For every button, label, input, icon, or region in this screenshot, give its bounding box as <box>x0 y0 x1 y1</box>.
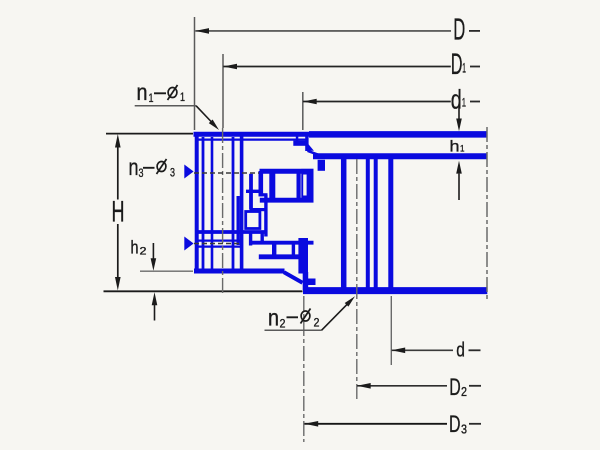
inner ring top chamfer diagonal <box>308 151 320 155</box>
H dimension line upper segment with up arrow <box>115 134 121 148</box>
svg-text:D: D <box>449 374 461 401</box>
lower roller right edge <box>292 244 295 256</box>
dimension line D1 <box>223 66 450 68</box>
svg-text:2: 2 <box>140 246 147 258</box>
inner ring bore wall <box>388 158 393 289</box>
upper corner bar <box>259 193 268 196</box>
inner ring nose left face <box>264 195 267 237</box>
lower grease fitting arrow <box>184 237 193 251</box>
H top extension line <box>106 133 193 135</box>
h1 upper arrow <box>458 106 460 119</box>
extension line for d1 (inner ring lip) <box>302 92 304 130</box>
section right edge centerline <box>486 127 488 299</box>
n1 underline <box>135 105 196 107</box>
phi1 symbol <box>168 88 177 98</box>
lower staircase column <box>261 232 264 243</box>
trailing dash after D2 <box>469 385 481 387</box>
arrowhead D <box>195 28 209 34</box>
svg-text:3: 3 <box>461 422 467 437</box>
outer ring top inner line <box>197 139 308 141</box>
outer ring left chamfer line <box>202 137 205 270</box>
svg-text:h: h <box>450 139 460 156</box>
svg-text:n: n <box>129 154 139 180</box>
outer+inner ring top surface line <box>194 132 310 137</box>
upper pocket staircase bar <box>246 190 261 193</box>
lower grease hole lower wall <box>196 246 243 248</box>
lower grease hole centerline <box>194 243 242 245</box>
svg-text:3: 3 <box>170 166 175 180</box>
arrowhead D1 <box>223 64 237 70</box>
inner ring top step vertical <box>305 135 308 151</box>
n1 leader line <box>196 106 212 123</box>
n2 underline <box>265 329 322 331</box>
dimension line D2 <box>357 385 447 387</box>
radial pocket top line <box>250 208 266 211</box>
trailing dash after d1 <box>470 101 480 103</box>
svg-text:d: d <box>456 338 465 361</box>
outer ring split line / radial pocket bottom <box>197 230 266 234</box>
svg-text:D: D <box>451 48 463 81</box>
extension line for D1 (bolt circle outer ring) <box>222 54 224 128</box>
svg-text:1: 1 <box>462 60 466 76</box>
outer ring bottom edge <box>194 269 285 274</box>
outer ring bottom chamfer <box>284 272 303 283</box>
arrowhead D2 <box>357 383 371 389</box>
upper grease fitting arrow <box>184 165 193 179</box>
dimension line D3 <box>305 423 448 425</box>
outer ring bolt hole left wall <box>211 137 214 269</box>
svg-text:2: 2 <box>280 317 286 331</box>
svg-text:n: n <box>137 79 148 105</box>
inner ring nose bottom line <box>249 241 314 245</box>
svg-text:h: h <box>131 237 139 257</box>
dimension line d <box>392 349 454 351</box>
svg-text:d: d <box>451 84 462 114</box>
upper pocket right wall slit <box>303 175 306 196</box>
upper roller right edge <box>297 174 301 199</box>
inner ring bolt hole left wall <box>341 158 347 289</box>
lower grease hole upper wall <box>196 240 243 242</box>
svg-text:D: D <box>453 12 465 47</box>
extension line for D (outer ring OD) <box>194 17 196 130</box>
n1 leader arrowhead <box>209 120 219 131</box>
arrowhead d <box>392 348 406 354</box>
inner ring top surface line <box>313 153 487 159</box>
svg-text:n: n <box>268 305 279 331</box>
lower roller left edge <box>272 244 276 256</box>
radial roller outline <box>246 212 260 229</box>
inner ring bolt hole right wall <box>366 158 370 289</box>
lower pocket staircase vertical <box>249 232 252 246</box>
inner ring bore step line <box>374 158 378 289</box>
n2 leader arrowhead <box>345 296 355 306</box>
svg-text:D: D <box>449 411 461 438</box>
trailing dash after D1 <box>470 66 480 68</box>
outer ring bore wall <box>240 136 244 270</box>
inner ring labyrinth blob <box>307 143 314 151</box>
inner ring nose top line <box>260 198 314 203</box>
upper roller pocket top line <box>260 169 314 174</box>
trailing dash after d <box>469 349 481 351</box>
phi3 symbol <box>157 162 166 172</box>
svg-text:3: 3 <box>139 166 144 180</box>
svg-text:2: 2 <box>461 384 467 399</box>
n2 leader line <box>322 303 349 330</box>
dimension line D <box>195 30 451 32</box>
upper roller left edge <box>269 174 275 199</box>
upper cage wall <box>258 171 263 196</box>
D3 extension line <box>303 296 305 442</box>
outer ring left edge <box>195 132 199 273</box>
upper grease hole centerline <box>194 172 259 174</box>
svg-text:1: 1 <box>180 90 185 104</box>
trailing dash after D <box>469 30 480 32</box>
inner ring seal strip <box>318 160 325 171</box>
d extension line <box>390 296 392 365</box>
outer ring bore wall thickening at roller zone <box>236 196 239 245</box>
svg-text:1: 1 <box>149 91 154 105</box>
dimension line d1 <box>303 101 451 103</box>
svg-text:1: 1 <box>462 96 467 110</box>
lower pocket bottom line <box>259 254 300 259</box>
phi2 symbol <box>301 311 310 321</box>
outer ring bolt hole right wall <box>232 137 235 269</box>
inner ring top step nub <box>296 136 299 142</box>
inner ring bottom foot vertical <box>303 272 309 290</box>
upper pocket staircase vertical <box>249 174 253 210</box>
svg-text:2: 2 <box>314 316 320 330</box>
svg-text:1: 1 <box>460 144 465 154</box>
h2 upper arrow <box>152 243 154 259</box>
inner ring bottom foot crossbar <box>304 279 316 286</box>
h1 lower arrow <box>456 161 462 174</box>
inner ring labyrinth tab bar <box>293 141 307 146</box>
arrowhead D3 <box>305 421 319 427</box>
outer ring bolt hole centerline <box>222 128 224 296</box>
lower pocket right wall <box>298 238 308 274</box>
inner ring bolt hole centerline / D2 extension <box>356 159 358 402</box>
h2 lower arrow (pointing up) <box>152 292 158 305</box>
h2 extension line (outer ring bottom) <box>140 270 193 272</box>
arrowhead d1 <box>303 99 317 105</box>
trailing dash after D3 <box>469 423 481 425</box>
H dimension line lower segment with down arrow <box>117 224 119 278</box>
inner ring bottom line <box>303 287 487 294</box>
upper pocket right wall <box>301 169 313 200</box>
bottom extension line (H base / inner ring bottom) <box>104 290 303 292</box>
svg-text:H: H <box>112 196 125 229</box>
